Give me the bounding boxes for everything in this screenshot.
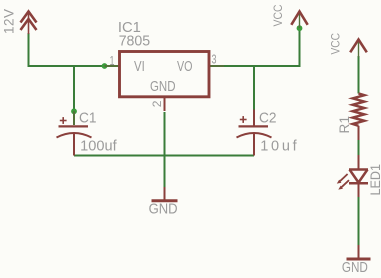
svg-text:1: 1 [110,54,115,68]
svg-text:C1: C1 [79,111,97,127]
svg-text:R1: R1 [337,116,352,134]
svg-text:VI: VI [134,59,145,75]
svg-text:2: 2 [150,100,164,107]
svg-text:VCC: VCC [328,33,342,55]
svg-text:VO: VO [177,59,193,75]
svg-text:LED1: LED1 [367,164,381,196]
svg-text:GND: GND [149,202,178,218]
svg-text:12V: 12V [1,9,16,34]
svg-text:7805: 7805 [119,34,151,50]
svg-text:3: 3 [212,53,217,67]
svg-text:GND: GND [150,79,176,95]
svg-text:100uf: 100uf [80,138,117,154]
svg-text:GND: GND [342,260,368,276]
svg-text:C2: C2 [259,111,277,127]
svg-text:VCC: VCC [271,4,285,26]
svg-text:10uf: 10uf [260,138,297,154]
